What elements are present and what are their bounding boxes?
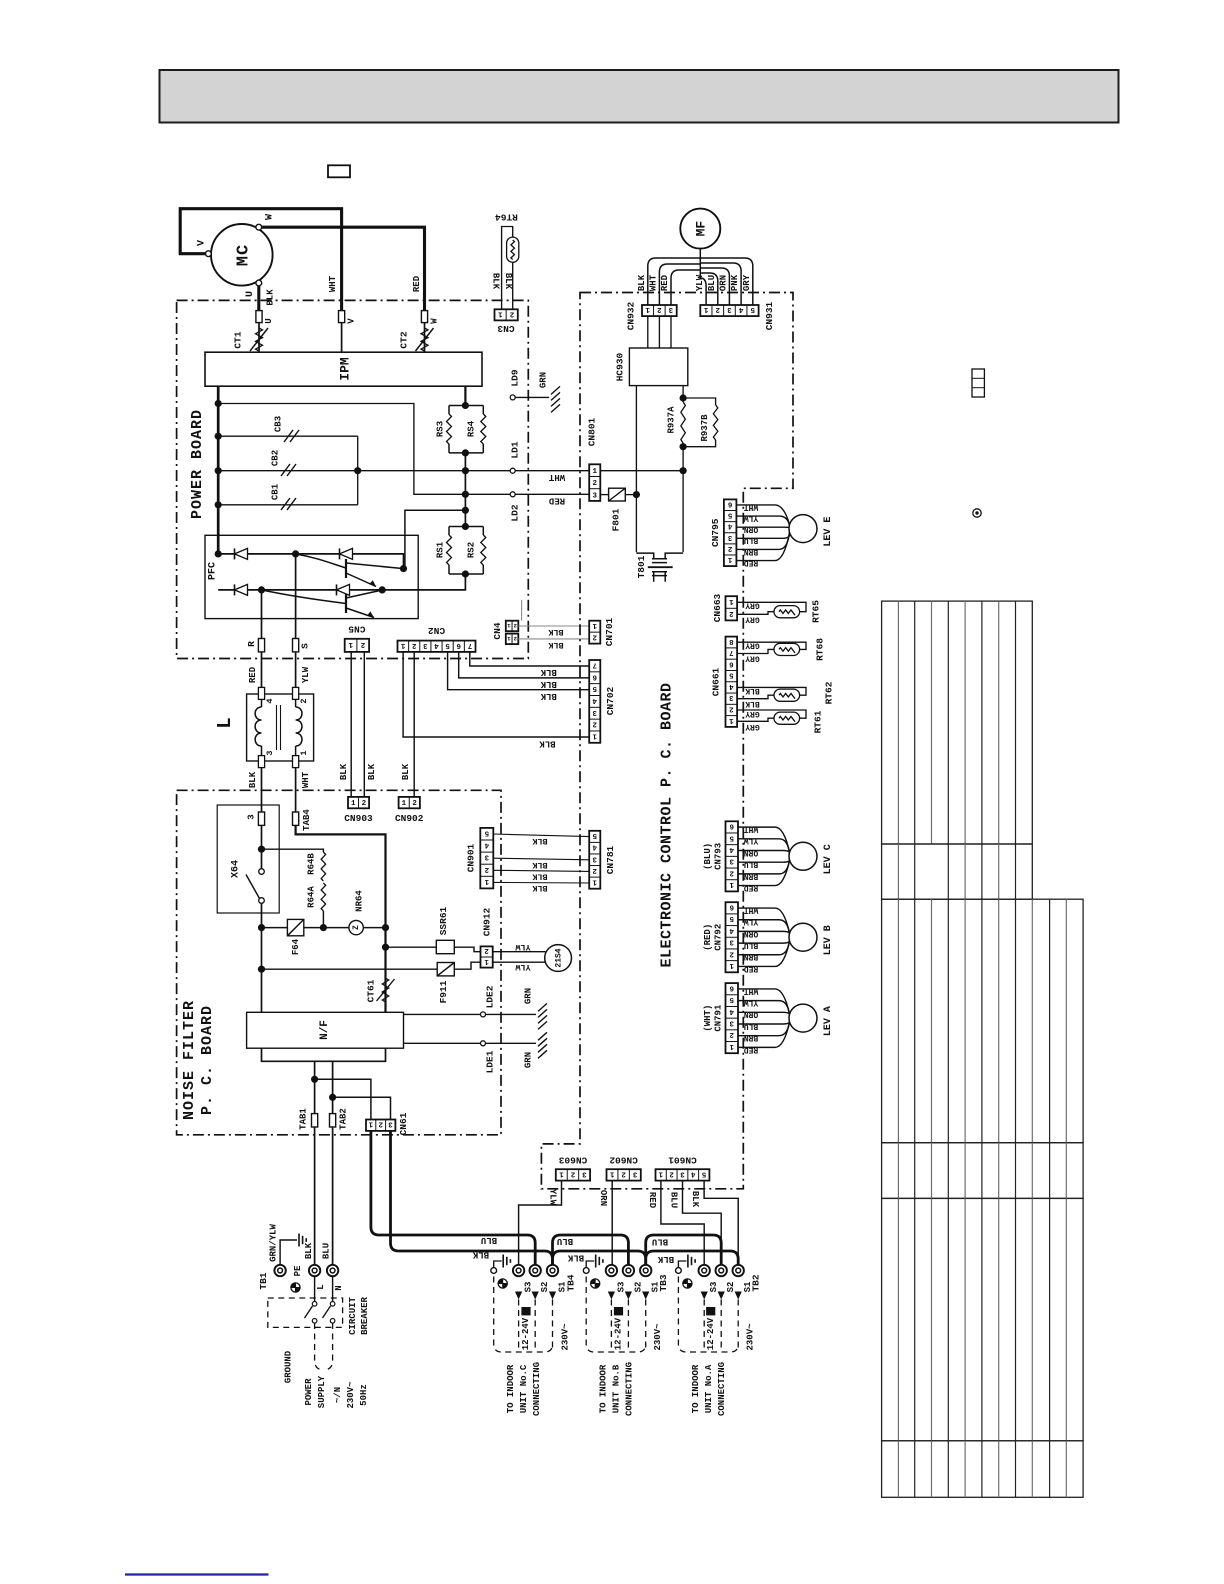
expansion valve LEV&#160;B bbox=[789, 923, 817, 951]
svg-text:3: 3 bbox=[729, 857, 734, 865]
svg-text:1: 1 bbox=[645, 305, 650, 313]
svg-text:4: 4 bbox=[265, 698, 275, 703]
svg-text:4: 4 bbox=[727, 522, 732, 530]
svg-text:CB2: CB2 bbox=[270, 450, 280, 466]
choke winding right bbox=[295, 699, 297, 707]
node bbox=[258, 966, 265, 973]
connector CN781 bbox=[589, 831, 600, 889]
terminal TB1 PE bbox=[274, 1265, 285, 1276]
svg-text:5: 5 bbox=[729, 995, 734, 1003]
legend small box bbox=[328, 165, 350, 177]
svg-text:1: 1 bbox=[402, 800, 407, 808]
svg-text:BLK: BLK bbox=[540, 679, 557, 689]
node bbox=[215, 467, 222, 474]
svg-text:230V~: 230V~ bbox=[653, 1323, 663, 1350]
wire LEV YLW bbox=[736, 516, 789, 526]
svg-text:2: 2 bbox=[412, 800, 417, 808]
svg-text:YLW: YLW bbox=[744, 836, 759, 845]
svg-text:2: 2 bbox=[715, 305, 720, 313]
wire LEV BLU bbox=[738, 857, 790, 862]
svg-text:1: 1 bbox=[484, 877, 489, 885]
svg-text:CN912: CN912 bbox=[482, 907, 493, 936]
svg-text:LEV C: LEV C bbox=[823, 844, 834, 874]
svg-text:CN793: CN793 bbox=[713, 843, 723, 870]
indoor unit connection dashed bracket bbox=[586, 1277, 646, 1353]
svg-text:5: 5 bbox=[750, 305, 755, 313]
capacitor CB1 row bbox=[218, 504, 358, 506]
wire W phase bbox=[262, 227, 425, 310]
svg-text:BLK: BLK bbox=[540, 667, 557, 677]
node bbox=[320, 924, 327, 931]
svg-text:(RED): (RED) bbox=[703, 924, 713, 951]
current transformer CT61 bbox=[382, 978, 389, 1002]
svg-text:~/N: ~/N bbox=[333, 1387, 343, 1403]
tab TAB2 bbox=[330, 1114, 336, 1127]
svg-text:RED: RED bbox=[548, 495, 565, 505]
node bbox=[462, 570, 469, 577]
svg-text:RED: RED bbox=[744, 558, 759, 567]
wire BLU CN601 bbox=[683, 1181, 722, 1265]
connector CN702 bbox=[589, 660, 600, 743]
capacitor CB3 row bbox=[218, 435, 358, 437]
svg-text:CONNECTING: CONNECTING bbox=[532, 1362, 542, 1416]
svg-text:6: 6 bbox=[456, 641, 461, 649]
svg-text:3: 3 bbox=[592, 854, 597, 862]
svg-text:2: 2 bbox=[621, 1169, 626, 1177]
svg-text:L: L bbox=[316, 1284, 326, 1289]
svg-text:RED: RED bbox=[248, 666, 258, 683]
wire LEV YLW bbox=[738, 839, 790, 854]
ground bbox=[538, 1003, 547, 1011]
svg-text:4: 4 bbox=[690, 1169, 695, 1177]
wire CN2-6 to CN702-6 bbox=[459, 652, 590, 678]
connector CN931 bbox=[700, 305, 758, 316]
ELECTRONIC CONTROL P.C. BOARD outline bbox=[541, 293, 793, 1189]
svg-text:BRN: BRN bbox=[744, 952, 759, 961]
node bbox=[329, 1094, 336, 1101]
wire LEV WHT bbox=[738, 827, 790, 852]
svg-text:TO INDOOR: TO INDOOR bbox=[691, 1364, 701, 1413]
svg-text:CN661: CN661 bbox=[711, 667, 722, 696]
indoor unit connection dashed bracket bbox=[494, 1277, 553, 1353]
node bbox=[311, 1076, 318, 1083]
terminal TB4 S3 bbox=[513, 1265, 524, 1276]
svg-text:1: 1 bbox=[729, 961, 734, 969]
svg-text:HC930: HC930 bbox=[615, 352, 626, 381]
terminal TB2 S1 bbox=[733, 1265, 744, 1276]
svg-text:2: 2 bbox=[729, 1030, 734, 1038]
node bbox=[215, 400, 222, 407]
svg-text:BLK: BLK bbox=[540, 691, 557, 701]
svg-text:GRY: GRY bbox=[745, 600, 760, 609]
svg-text:RS2: RS2 bbox=[466, 542, 476, 558]
terminal TB3 S2 bbox=[623, 1265, 634, 1276]
svg-text:ORN: ORN bbox=[718, 275, 728, 291]
wire LEV YLW bbox=[738, 1001, 790, 1016]
wire CN2-5 to CN702-5 bbox=[448, 652, 590, 690]
svg-text:MC: MC bbox=[234, 244, 253, 266]
svg-text:POWER BOARD: POWER BOARD bbox=[189, 409, 206, 519]
svg-text:5: 5 bbox=[592, 684, 597, 692]
svg-text:RED: RED bbox=[647, 1192, 657, 1209]
wire TAB4 main bbox=[296, 825, 386, 1012]
svg-text:CN902: CN902 bbox=[395, 813, 424, 824]
svg-text:CN791: CN791 bbox=[713, 1004, 723, 1032]
wire LEV ORN bbox=[736, 526, 790, 529]
svg-text:PE: PE bbox=[293, 1265, 303, 1276]
svg-text:WHT: WHT bbox=[548, 472, 565, 482]
fuse F911 bbox=[262, 968, 438, 970]
svg-text:RED: RED bbox=[744, 883, 759, 892]
svg-text:V: V bbox=[346, 318, 356, 324]
wire CN2-2 to CN902 bbox=[413, 652, 415, 797]
svg-text:WHT: WHT bbox=[744, 905, 759, 914]
svg-text:LEV A: LEV A bbox=[823, 1006, 834, 1036]
svg-text:IPM: IPM bbox=[337, 357, 352, 381]
wire LEV WHT bbox=[736, 505, 789, 525]
tab R bbox=[258, 639, 264, 652]
svg-text:BRN: BRN bbox=[744, 1033, 759, 1042]
svg-text:BLK: BLK bbox=[531, 883, 547, 893]
tab U bbox=[256, 311, 262, 323]
svg-text:BLK: BLK bbox=[531, 871, 547, 881]
wire PFC collector bbox=[405, 510, 466, 568]
node bbox=[379, 586, 386, 593]
svg-text:LD1: LD1 bbox=[510, 441, 521, 458]
svg-text:7: 7 bbox=[729, 648, 734, 656]
svg-text:1: 1 bbox=[299, 750, 309, 755]
svg-text:F64: F64 bbox=[291, 938, 301, 955]
svg-text:GRN: GRN bbox=[523, 988, 533, 1004]
svg-text:POWER: POWER bbox=[304, 1378, 314, 1406]
svg-text:CN931: CN931 bbox=[764, 301, 775, 330]
svg-text:2: 2 bbox=[592, 480, 597, 488]
svg-text:230V~: 230V~ bbox=[561, 1323, 571, 1350]
wire N to TB1 bbox=[332, 1127, 334, 1265]
node bbox=[680, 443, 687, 450]
svg-text:1: 1 bbox=[400, 641, 405, 649]
wire CN4 to CN701 pin1 bbox=[518, 625, 589, 627]
IPM module bbox=[205, 352, 482, 386]
resistor RS1 bbox=[449, 527, 483, 575]
wire bbox=[464, 453, 466, 527]
svg-text:ELECTRONIC CONTROL P. C. BOARD: ELECTRONIC CONTROL P. C. BOARD bbox=[658, 682, 675, 967]
svg-text:TB4: TB4 bbox=[566, 1274, 577, 1291]
svg-text:2: 2 bbox=[362, 800, 367, 808]
diode bbox=[336, 584, 338, 595]
svg-text:GRY: GRY bbox=[745, 709, 760, 718]
solenoid valve coil 21S4 bbox=[545, 945, 572, 972]
motor terminal W bbox=[256, 224, 262, 230]
svg-text:1: 1 bbox=[351, 800, 356, 808]
diode bbox=[339, 548, 341, 559]
svg-text:CN901: CN901 bbox=[466, 843, 477, 872]
resistor R64A bbox=[321, 883, 326, 911]
indoor unit connection dashed bracket bbox=[678, 1277, 738, 1353]
svg-text:2: 2 bbox=[729, 609, 734, 617]
connector CN903 bbox=[348, 797, 369, 808]
svg-text:12-24V: 12-24V bbox=[706, 1317, 716, 1350]
node bbox=[382, 944, 389, 951]
wire R phase bbox=[261, 590, 263, 619]
svg-text:BLK: BLK bbox=[491, 273, 501, 290]
svg-text:2: 2 bbox=[378, 1120, 383, 1128]
svg-text:R937A: R937A bbox=[666, 406, 676, 434]
tab 3 bbox=[258, 812, 264, 825]
svg-text:BLK: BLK bbox=[539, 739, 556, 749]
thermistor RT62 bbox=[737, 687, 806, 695]
svg-text:BLU: BLU bbox=[669, 1192, 679, 1208]
node bbox=[462, 491, 469, 498]
LED LD2 bbox=[510, 492, 515, 497]
terminal TB3 S1 bbox=[640, 1265, 651, 1276]
svg-text:1: 1 bbox=[729, 1042, 734, 1050]
LED LD9 bbox=[510, 395, 515, 400]
connector CN3 bbox=[495, 309, 518, 320]
svg-text:BLK: BLK bbox=[637, 274, 647, 291]
terminal TB3 S3 bbox=[606, 1265, 617, 1276]
svg-text:YLW: YLW bbox=[514, 942, 530, 952]
svg-text:3: 3 bbox=[582, 1169, 587, 1177]
svg-text:CN801: CN801 bbox=[587, 417, 598, 446]
svg-text:W: W bbox=[429, 318, 439, 324]
svg-text:12-24V: 12-24V bbox=[614, 1317, 624, 1350]
wire CN901-5 to CN781 bbox=[493, 834, 589, 837]
svg-text:BLU: BLU bbox=[652, 1237, 668, 1247]
svg-text:CN61: CN61 bbox=[398, 1112, 409, 1135]
varistor NR64 bbox=[349, 920, 363, 934]
svg-text:GROUND: GROUND bbox=[283, 1350, 293, 1383]
svg-text:U: U bbox=[245, 291, 256, 297]
svg-text:230V~: 230V~ bbox=[745, 1323, 755, 1350]
mini 3-cell box bbox=[972, 369, 984, 397]
resistor R64B bbox=[321, 852, 326, 881]
ground bbox=[551, 386, 560, 394]
svg-text:YLW: YLW bbox=[695, 274, 705, 291]
svg-text:4: 4 bbox=[729, 845, 734, 853]
wire to power supply bbox=[315, 1323, 321, 1370]
svg-text:CN663: CN663 bbox=[712, 593, 723, 622]
svg-text:50Hz: 50Hz bbox=[359, 1384, 369, 1406]
wire PFC upper rail bbox=[218, 554, 403, 569]
svg-text:1: 1 bbox=[592, 621, 597, 629]
svg-text:BLK: BLK bbox=[503, 273, 513, 290]
svg-text:BLU: BLU bbox=[557, 1236, 573, 1246]
svg-text:YLW: YLW bbox=[744, 917, 759, 926]
wire S to choke bbox=[295, 652, 297, 693]
svg-text:TO INDOOR: TO INDOOR bbox=[506, 1364, 516, 1413]
svg-text:BRN: BRN bbox=[744, 871, 759, 880]
wire CN4 stub bbox=[521, 600, 523, 621]
IC HC930 bbox=[629, 348, 687, 386]
svg-text:T801: T801 bbox=[636, 555, 647, 578]
wire S phase bbox=[295, 554, 297, 639]
node bbox=[258, 924, 265, 931]
svg-text:S3: S3 bbox=[709, 1282, 719, 1293]
svg-text:2: 2 bbox=[514, 635, 517, 642]
wire DC bus left bbox=[217, 386, 220, 554]
resistor RS4 bbox=[482, 406, 484, 453]
wire CN4 to CN701 pin2 bbox=[518, 638, 589, 640]
svg-text:LDE1: LDE1 bbox=[485, 1050, 496, 1073]
terminal TB2 S2 bbox=[716, 1265, 727, 1276]
svg-text:BLK: BLK bbox=[248, 771, 258, 788]
svg-text:CN903: CN903 bbox=[344, 813, 373, 824]
svg-text:CT2: CT2 bbox=[399, 331, 410, 348]
svg-text:S2: S2 bbox=[540, 1282, 550, 1293]
wire BLU bus (S2 chain) bbox=[371, 1131, 721, 1265]
svg-text:PNK: PNK bbox=[730, 274, 740, 291]
tab S bbox=[293, 639, 299, 652]
svg-text:CN932: CN932 bbox=[626, 301, 637, 330]
wire LEV BLU bbox=[738, 1019, 790, 1024]
svg-text:V: V bbox=[197, 240, 208, 246]
switch contact bbox=[259, 869, 265, 875]
wire R to choke bbox=[261, 652, 263, 693]
svg-text:CONNECTING: CONNECTING bbox=[717, 1362, 727, 1416]
svg-text:2: 2 bbox=[299, 698, 309, 703]
svg-text:CN702: CN702 bbox=[605, 686, 616, 715]
svg-text:BLK: BLK bbox=[472, 1250, 489, 1260]
svg-text:CONNECTING: CONNECTING bbox=[625, 1362, 635, 1416]
svg-text:WHT: WHT bbox=[744, 502, 759, 511]
svg-text:2: 2 bbox=[592, 866, 597, 874]
compressor motor MC bbox=[211, 224, 273, 286]
wire U phase bbox=[257, 286, 260, 311]
svg-text:ORN: ORN bbox=[744, 929, 759, 938]
svg-text:4: 4 bbox=[592, 843, 597, 851]
svg-text:CN795: CN795 bbox=[710, 518, 721, 547]
svg-text:5: 5 bbox=[729, 833, 734, 841]
svg-text:1: 1 bbox=[729, 716, 734, 724]
svg-text:NOISE FILTER: NOISE FILTER bbox=[181, 1000, 198, 1120]
svg-text:3: 3 bbox=[423, 641, 428, 649]
svg-text:BLK: BLK bbox=[745, 699, 760, 708]
svg-text:YLW: YLW bbox=[744, 513, 759, 522]
wire LEV RED bbox=[736, 532, 789, 560]
svg-text:SUPPLY: SUPPLY bbox=[317, 1375, 327, 1408]
svg-text:YLW: YLW bbox=[548, 1189, 558, 1206]
svg-text:GRY: GRY bbox=[745, 614, 760, 623]
svg-text:2: 2 bbox=[484, 946, 489, 954]
wire CN5-2 to CN903 bbox=[363, 652, 365, 797]
wire LEV BLU bbox=[736, 529, 790, 538]
svg-text:1: 1 bbox=[498, 309, 503, 317]
wire LEV BRN bbox=[738, 939, 790, 954]
svg-text:ORN: ORN bbox=[744, 848, 759, 857]
svg-text:BLK: BLK bbox=[657, 1254, 674, 1264]
svg-text:RT64: RT64 bbox=[495, 211, 518, 222]
svg-text:CN602: CN602 bbox=[609, 1154, 638, 1165]
LED LDE2 bbox=[404, 1013, 481, 1015]
svg-text:6: 6 bbox=[727, 499, 732, 507]
terminal TB2 S3 bbox=[699, 1265, 710, 1276]
wire IPM to RS bbox=[464, 386, 466, 405]
svg-text:3: 3 bbox=[729, 938, 734, 946]
svg-text:4: 4 bbox=[484, 841, 489, 849]
svg-text:N: N bbox=[334, 1285, 344, 1290]
svg-text:BLU: BLU bbox=[321, 1243, 331, 1259]
svg-text:1: 1 bbox=[348, 640, 353, 648]
svg-text:TB1: TB1 bbox=[258, 1272, 269, 1289]
svg-text:CN3: CN3 bbox=[497, 323, 514, 334]
svg-text:CT1: CT1 bbox=[233, 331, 244, 348]
svg-text:BLK: BLK bbox=[401, 763, 411, 780]
svg-text:1: 1 bbox=[592, 877, 597, 885]
rotated spec table middle bbox=[882, 899, 1084, 1142]
wire LD2 row (RED) bbox=[218, 404, 510, 495]
LED LDE1 bbox=[404, 1042, 481, 1044]
svg-text:21S4: 21S4 bbox=[555, 948, 564, 967]
resistor R937B bbox=[683, 398, 716, 405]
transistor Q1 (PFC upper IGBT) bbox=[345, 559, 347, 578]
svg-text:RED: RED bbox=[660, 274, 670, 291]
svg-text:5: 5 bbox=[729, 914, 734, 922]
wire LEV YLW bbox=[738, 920, 790, 935]
wire LEV BRN bbox=[736, 531, 789, 550]
svg-text:BLK: BLK bbox=[265, 289, 275, 306]
svg-text:GRY: GRY bbox=[745, 722, 760, 731]
wire choke 3 down bbox=[261, 768, 263, 812]
svg-text:RS1: RS1 bbox=[435, 541, 445, 558]
terminal TB4 S2 bbox=[530, 1265, 541, 1276]
svg-text:TB3: TB3 bbox=[658, 1274, 669, 1291]
svg-text:F801: F801 bbox=[611, 508, 622, 531]
svg-text:R: R bbox=[246, 641, 257, 647]
svg-text:WHT: WHT bbox=[744, 986, 759, 995]
svg-text:WHT: WHT bbox=[301, 771, 311, 788]
svg-text:S2: S2 bbox=[633, 1282, 643, 1293]
svg-text:3: 3 bbox=[727, 305, 732, 313]
thermistor RT65 bbox=[737, 602, 806, 611]
wire LEV BLU bbox=[738, 938, 790, 943]
svg-text:YLW: YLW bbox=[301, 666, 311, 683]
svg-text:TO INDOOR: TO INDOOR bbox=[599, 1364, 609, 1413]
svg-text:L: L bbox=[214, 717, 236, 728]
svg-text:6: 6 bbox=[592, 672, 597, 680]
svg-text:LD2: LD2 bbox=[510, 504, 521, 521]
svg-text:1: 1 bbox=[609, 1169, 614, 1177]
resistor RS2 bbox=[482, 527, 484, 575]
svg-text:2: 2 bbox=[484, 865, 489, 873]
svg-text:RS3: RS3 bbox=[435, 421, 445, 437]
svg-text:BRN: BRN bbox=[744, 547, 759, 556]
svg-text:CN701: CN701 bbox=[604, 617, 615, 646]
svg-text:4: 4 bbox=[434, 641, 439, 649]
thermistor RT68 bbox=[737, 642, 806, 649]
svg-text:CN5: CN5 bbox=[348, 623, 365, 634]
choke winding left bbox=[261, 699, 263, 707]
svg-text:CN601: CN601 bbox=[668, 1154, 697, 1165]
svg-text:GRY: GRY bbox=[745, 640, 760, 649]
svg-text:3: 3 bbox=[388, 1120, 393, 1128]
svg-text:GRN: GRN bbox=[538, 372, 548, 388]
svg-text:ORN: ORN bbox=[744, 525, 759, 534]
svg-text:CN4: CN4 bbox=[492, 622, 503, 639]
LED LD1 bbox=[510, 468, 515, 473]
svg-text:RED: RED bbox=[412, 275, 422, 292]
svg-text:CN603: CN603 bbox=[558, 1154, 587, 1165]
node bbox=[462, 449, 469, 456]
svg-text:2: 2 bbox=[360, 640, 365, 648]
current transformer CT1 bbox=[258, 323, 260, 353]
title header bar bbox=[160, 70, 1119, 123]
svg-text:1: 1 bbox=[729, 597, 734, 605]
svg-text:BLK: BLK bbox=[547, 640, 563, 650]
NOISE FILTER P.C. BOARD outline bbox=[177, 790, 501, 1135]
svg-text:(WHT): (WHT) bbox=[703, 1005, 713, 1032]
svg-text:8: 8 bbox=[729, 637, 734, 645]
